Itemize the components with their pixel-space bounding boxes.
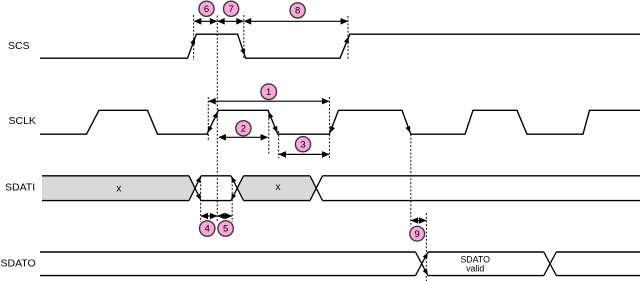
callout circle 1 <box>261 84 277 100</box>
svg-text:x: x <box>116 183 121 194</box>
svg-text:SDATI: SDATI <box>5 182 35 194</box>
dotted reference line at SCLK fall foot x=278.6 <box>278 131 280 158</box>
svg-text:SCLK: SCLK <box>9 115 36 127</box>
dotted reference line at SCLK rise foot x=208.3 <box>207 97 209 140</box>
dotted reference line at SCS falling edge x=243.8 <box>243 15 245 59</box>
SDATI X1 top arrowhead <box>196 175 203 183</box>
SDATO bus top lines <box>40 251 640 253</box>
SCLK fall2 top arrowhead <box>266 111 273 119</box>
dimension arrow 3 <box>279 153 329 155</box>
SDATI X1 bottom arrowhead <box>196 194 203 202</box>
callout circle 3 <box>295 137 310 152</box>
callout circle 9 <box>410 226 425 241</box>
svg-text:3: 3 <box>300 139 305 150</box>
SCLK fall3 foot arrowhead <box>405 126 412 134</box>
dotted reference line at SDATI valid end x=232.2 <box>231 177 233 222</box>
svg-text:SCS: SCS <box>8 40 30 52</box>
dimension arrow 9 <box>411 220 426 222</box>
callout circle 7 <box>224 1 239 16</box>
SDATI X2 bottom arrowhead <box>229 194 236 202</box>
dotted reference line at SCS 2nd rising edge x=348 <box>347 16 349 59</box>
svg-text:9: 9 <box>415 229 420 240</box>
SCLK rise2 foot arrowhead <box>205 126 212 134</box>
SDATI crossover X1 <box>189 176 201 201</box>
SDATO crossover X2 <box>544 252 557 276</box>
dotted reference line at SDATI valid start x=200.6 <box>200 177 202 222</box>
dimension arrow 7 <box>218 20 243 22</box>
callout circle 6 <box>199 1 214 16</box>
SDATI gray segment fill (x) middle <box>237 176 316 201</box>
dotted reference line from SCLK fall to SDATO x=410.8 <box>410 134 412 227</box>
SCS fall1 edge arrowhead <box>240 49 247 57</box>
callout circle 4 <box>200 221 215 236</box>
SCLK waveform <box>40 110 640 134</box>
svg-text:2: 2 <box>241 124 246 135</box>
SDATO X1 top arrowhead <box>423 251 430 259</box>
callout circle 2 <box>236 121 251 136</box>
dimension arrow 5 <box>218 215 232 217</box>
svg-text:valid: valid <box>466 263 484 273</box>
SDATO X1 bottom arrowhead <box>423 269 430 277</box>
SDATI crossover X3 <box>310 176 323 201</box>
SCLK rise3 foot arrowhead <box>328 126 335 134</box>
dotted reference line at SCS rising edge x=193.6 <box>193 15 195 60</box>
svg-text:8: 8 <box>295 6 300 17</box>
long dotted reference line x=217.3 (SCS mid to SDATI arrows) <box>216 16 218 223</box>
dimension arrow 2 <box>219 136 268 138</box>
SCS rise1 edge arrowhead <box>190 37 197 45</box>
SCLK fall2 foot arrowhead <box>272 126 279 134</box>
SDATI bus top lines <box>42 175 640 177</box>
dotted reference line at SCLK fall top x=268.8 <box>268 111 270 154</box>
dimension arrow 4 <box>201 215 217 217</box>
callout circle 8 <box>290 3 305 18</box>
dimension arrow 8 <box>244 20 347 22</box>
dotted reference line at SCLK 3rd rise x=329.5 <box>329 97 331 158</box>
svg-text:SDATO: SDATO <box>1 258 36 270</box>
SCS rise2 edge arrowhead <box>344 36 351 44</box>
SDATI bus bottom lines <box>42 200 640 202</box>
SDATO bus bottom lines <box>40 275 640 277</box>
svg-text:1: 1 <box>266 87 271 98</box>
dimension arrow 6 <box>194 20 216 22</box>
svg-text:6: 6 <box>204 4 209 15</box>
SDATI X2 top arrowhead <box>229 175 236 183</box>
svg-text:7: 7 <box>228 4 233 15</box>
SDATI gray segment fill (x) left <box>42 176 195 201</box>
callout circle 5 <box>218 221 233 236</box>
svg-text:5: 5 <box>223 224 228 235</box>
dimension arrow 1 <box>209 100 329 102</box>
SCS waveform <box>40 34 640 58</box>
SCLK rise2 top arrowhead <box>213 110 220 118</box>
svg-text:4: 4 <box>205 224 210 235</box>
dotted reference line at SDATO valid start x=426.4 <box>425 213 427 281</box>
SDATI crossover X2 <box>231 176 244 201</box>
SDATO crossover X1 <box>416 252 429 276</box>
svg-text:x: x <box>276 182 281 193</box>
